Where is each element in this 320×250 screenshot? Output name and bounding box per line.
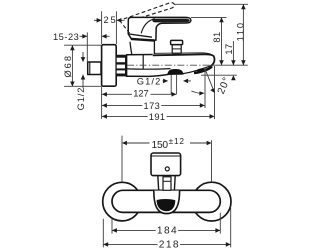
svg-text:G1/2: G1/2 [137, 76, 161, 86]
barrel body (front) [112, 190, 220, 212]
pipe G1/2 leader line upper [82, 52, 84, 62]
ref line A (spout outlet level) [211, 64, 248, 66]
dim 218 right arrow [226, 242, 231, 247]
extension line x=214.5 (spout tip) [214, 66, 216, 119]
dim 110 bottom arrow [241, 60, 246, 65]
dim 150 left extension [121, 136, 123, 182]
spout top edge and tip front face [153, 54, 215, 65]
text gap masks (side view) [132, 90, 167, 122]
cartridge stem (front) [163, 177, 171, 191]
20deg arc arrow [199, 91, 204, 95]
handle blade (dark, edge-on) [152, 19, 189, 23]
svg-text:150: 150 [152, 140, 169, 151]
cartridge cone top (thick) [131, 39, 155, 41]
valve body bottom seam [127, 68, 171, 71]
dim 218 line [103, 243, 230, 245]
hose outlet dome (dark) [168, 69, 184, 74]
dim Ø68 line [71, 46, 73, 87]
dim 25 arrows [94, 19, 101, 21]
dim 17 up arrow [231, 75, 236, 80]
Ø68 bottom arrow [70, 82, 75, 87]
barrel underside silhouette [126, 75, 168, 77]
svg-text:81: 81 [212, 32, 222, 43]
20 deg arc leader [191, 91, 200, 93]
text gap masks (front view) [156, 226, 180, 248]
dim 191 line [102, 115, 214, 117]
pipe dim up arrow [81, 75, 86, 80]
dome G1/2 left-point arrow [183, 79, 188, 84]
svg-text:191: 191 [149, 112, 165, 122]
cartridge stem seam [163, 180, 171, 182]
dim 173 right arrow [200, 103, 205, 108]
dim 25: extension lines [101, 11, 103, 44]
dim 81 top arrow [219, 17, 224, 22]
dim 15-23 left arrow [82, 34, 87, 39]
left wall escutcheon (front) [103, 182, 142, 221]
dim 218 left arrow [103, 242, 108, 247]
dim 127 line [102, 93, 176, 95]
cartridge cone (side) [130, 41, 154, 55]
diverter knob body [172, 45, 181, 54]
dim 150 line right part [190, 142, 211, 144]
dim 110 top arrow [241, 4, 246, 9]
20 deg slant line [205, 68, 214, 91]
dim 127 left arrow [102, 92, 107, 97]
dim 191 right arrow [210, 114, 215, 119]
dim 110 line [242, 5, 244, 66]
dim 81 line [221, 18, 223, 65]
20deg slant arrow [210, 88, 215, 93]
beak tip blob [197, 69, 204, 72]
Ø68 top arrow [70, 45, 75, 50]
svg-text:20°: 20° [216, 76, 233, 96]
dim 17 stem [232, 41, 234, 65]
spout front outline [154, 191, 180, 214]
grip bottom slant edge [128, 34, 152, 37]
handle grip block [128, 17, 191, 40]
handle inner curve [141, 19, 155, 34]
svg-text:Ø68: Ø68 [63, 56, 73, 78]
right wall escutcheon (front) [192, 182, 231, 221]
diverter knob seam [172, 48, 181, 50]
svg-text:25: 25 [104, 15, 116, 25]
dim 184 left arrow [112, 228, 117, 233]
centerline of mixer axis [127, 64, 214, 66]
dim 191 left arrow [102, 114, 107, 119]
dim 25 left arrow [97, 18, 102, 23]
diverter knob cap [171, 40, 183, 44]
svg-text:17: 17 [224, 44, 234, 55]
handle (front) [151, 153, 181, 176]
handle top extension (81) [191, 16, 227, 18]
dim Ø68: extension lines [64, 44, 101, 46]
svg-text:110: 110 [236, 23, 246, 41]
wall escutcheon plate [102, 45, 117, 86]
cartridge cone (front) [158, 176, 175, 191]
union nut (ribbed) [116, 55, 125, 76]
dim 150 line left part [123, 142, 150, 144]
ref line B (dome outlet level) [201, 74, 237, 76]
dome G1/2 right-point arrow [163, 79, 168, 84]
spout underside from dome to beak [183, 66, 211, 74]
dim 81 bottom arrow [219, 60, 224, 65]
svg-text:218: 218 [159, 239, 179, 250]
svg-text:173: 173 [144, 101, 160, 111]
handle indicator dot [165, 167, 169, 171]
arrowheads, side view [70, 4, 246, 118]
dim 25 right arrow [117, 18, 122, 23]
dim 15-23 extension line [86, 32, 88, 61]
spout beak dark lip [194, 66, 212, 73]
dim 15-23 arrows [80, 35, 87, 37]
valve body block [127, 55, 153, 77]
wall face extension below plate [101, 87, 103, 119]
dim 15-23 right arrow [102, 34, 107, 39]
dim 150 right arrow [207, 141, 212, 146]
dim 150 left arrow [122, 141, 127, 146]
dim 150 right extension [211, 140, 213, 182]
dome G1/2 leader [163, 80, 168, 82]
extension line x=205 (spout outlet) [204, 68, 206, 108]
dim 218 extensions [102, 219, 104, 248]
valve body internal seam [142, 55, 144, 69]
supply pipe (G1/2 connection stub) [88, 62, 101, 75]
dim 184 line [112, 229, 220, 231]
dim 184 extensions [111, 219, 113, 234]
svg-text:184: 184 [157, 226, 177, 237]
dim 184 right arrow [215, 228, 220, 233]
pipe dim down arrow [81, 57, 86, 62]
svg-text:G1/2: G1/2 [76, 88, 86, 111]
svg-text:15-23: 15-23 [53, 32, 79, 42]
pipe G1/2 leader line lower [82, 75, 84, 88]
svg-text:127: 127 [133, 89, 148, 99]
dim 173 left arrow [102, 103, 107, 108]
raised handle ghost (dashed) [121, 3, 175, 34]
dim 127 right arrow [172, 92, 177, 97]
dim 17 down arrow [231, 60, 236, 65]
raised handle top extension (110) [175, 3, 249, 5]
spout front dark opening [157, 199, 176, 211]
svg-text:±12: ±12 [169, 136, 185, 146]
spout top far edge (thin) [155, 53, 212, 55]
handle cap seam [151, 155, 180, 157]
dim 173 line [102, 104, 205, 106]
pipe thread relief lines [89, 62, 91, 75]
dome hole extension lines [170, 75, 172, 94]
